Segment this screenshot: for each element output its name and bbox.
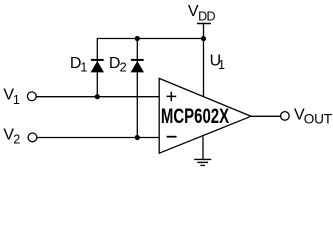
wire VDD rail	[97, 38, 204, 40]
svg-text:1: 1	[80, 61, 87, 75]
power terminal VDD bar	[197, 23, 211, 25]
wire D1 branch	[96, 39, 98, 97]
diode D1	[91, 60, 104, 73]
node VDD rail junction	[201, 36, 206, 41]
svg-text:1: 1	[13, 93, 20, 107]
diode D2	[131, 60, 144, 73]
wire ground pin	[202, 137, 204, 160]
op-amp minus sign	[167, 136, 177, 138]
terminal VOUT	[281, 112, 290, 121]
ground	[194, 159, 211, 165]
node rail-D2 junction	[135, 36, 140, 41]
terminal V2	[28, 133, 37, 142]
node D2-V2 junction	[135, 135, 140, 140]
op-amp plus sign	[167, 92, 177, 102]
node D1-V1 junction	[95, 94, 100, 99]
op-amp U1	[159, 78, 251, 153]
wire output	[251, 115, 281, 117]
wire V2 to inverting input	[37, 137, 159, 139]
svg-text:2: 2	[120, 61, 127, 75]
wire VDD vertical to U1 supply pin	[203, 24, 205, 97]
svg-text:2: 2	[13, 133, 20, 147]
wire D2 branch	[136, 39, 138, 138]
svg-text:DD: DD	[198, 10, 215, 24]
svg-text:MCP602X: MCP602X	[161, 105, 229, 128]
terminal V1	[27, 92, 36, 101]
svg-text:OUT: OUT	[304, 112, 332, 127]
svg-text:1: 1	[218, 58, 225, 72]
wire V1 to noninverting input	[36, 96, 159, 98]
